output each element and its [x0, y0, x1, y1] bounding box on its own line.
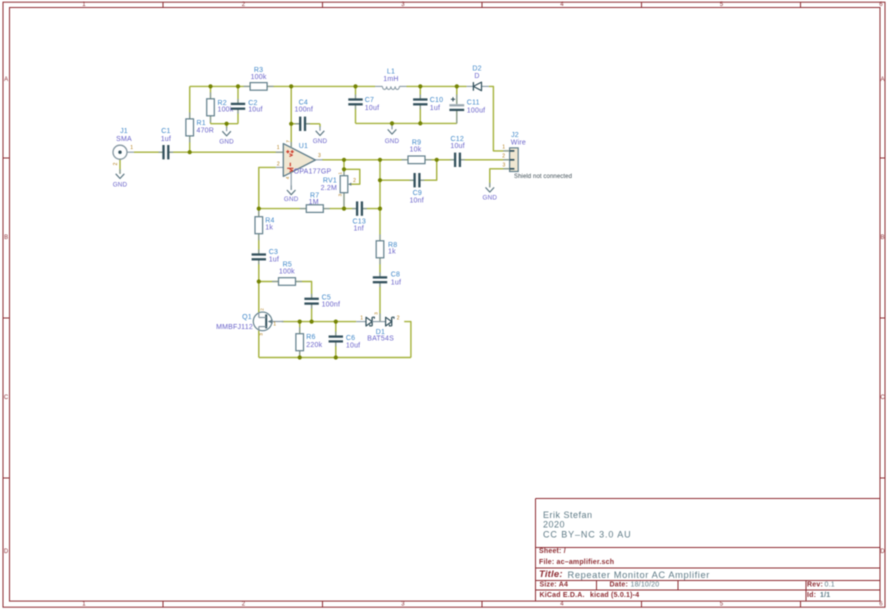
svg-text:A: A [880, 77, 884, 83]
svg-text:18/10/20: 18/10/20 [631, 581, 660, 588]
svg-text:Sheet: /: Sheet: / [539, 548, 566, 555]
svg-text:100uf: 100uf [467, 107, 486, 114]
svg-text:Id:: Id: [807, 592, 816, 599]
wire C11 column [456, 86, 458, 123]
svg-text:MMBFJ112: MMBFJ112 [216, 324, 253, 331]
svg-text:GND: GND [284, 196, 299, 203]
svg-text:3: 3 [401, 601, 405, 607]
wire filter ground stub [391, 123, 393, 126]
ground at filter bus [391, 125, 393, 130]
svg-text:D: D [4, 549, 9, 555]
resistor R7 [300, 208, 307, 210]
svg-text:C9: C9 [413, 190, 422, 197]
wire RV1 wiper loop [344, 169, 360, 184]
wire Q1 source column [258, 331, 260, 358]
svg-text:J2: J2 [511, 132, 519, 139]
svg-text:C3: C3 [269, 249, 278, 256]
svg-text:J1: J1 [120, 128, 128, 135]
svg-text:1k: 1k [265, 225, 273, 232]
svg-text:Repeater Monitor AC Amplifier: Repeater Monitor AC Amplifier [568, 570, 710, 580]
wire R2C2 ground stub [226, 124, 228, 128]
junction dots [208, 84, 212, 88]
capacitor C13 [358, 201, 361, 216]
svg-text:R6: R6 [306, 334, 315, 341]
svg-text:2: 2 [353, 178, 356, 184]
svg-text:B: B [4, 235, 8, 241]
svg-text:C: C [880, 395, 885, 401]
wire D2 to J2 pin1 [489, 86, 510, 150]
svg-text:4: 4 [560, 601, 564, 607]
wire U1 supply column [290, 86, 292, 147]
svg-text:0.1: 0.1 [825, 581, 835, 588]
capacitor C8 [373, 278, 388, 281]
svg-text:10nf: 10nf [409, 197, 423, 204]
diode D1 BAT54S [356, 321, 366, 323]
svg-text:Q1: Q1 [242, 314, 252, 321]
svg-text:5: 5 [720, 601, 724, 607]
capacitor C12 [456, 152, 459, 167]
capacitor C4 [301, 116, 304, 131]
svg-text:BAT54S: BAT54S [367, 336, 394, 343]
svg-text:5: 5 [720, 2, 724, 8]
svg-text:A: A [4, 77, 8, 83]
svg-text:10k: 10k [410, 146, 422, 153]
wire C2 column [237, 86, 239, 123]
capacitor C3 [251, 255, 266, 258]
svg-text:SMA: SMA [116, 136, 132, 143]
svg-text:C6: C6 [346, 335, 355, 342]
svg-text:1: 1 [82, 2, 86, 8]
ground at R2 C2 [226, 127, 228, 132]
svg-text:R3: R3 [254, 67, 263, 74]
svg-text:6: 6 [879, 2, 883, 8]
svg-text:1k: 1k [388, 248, 396, 255]
op-amp U1 [276, 151, 284, 153]
wire input net J1-C1-U1 [134, 151, 283, 153]
wire J1 ground stub [119, 159, 121, 173]
svg-text:1: 1 [360, 316, 363, 322]
ground at J1 [119, 169, 121, 174]
resistor R6 [299, 327, 301, 334]
wire C4 row [291, 123, 320, 125]
svg-text:D: D [880, 549, 885, 555]
svg-text:GND: GND [113, 182, 128, 189]
svg-text:100nf: 100nf [322, 302, 341, 309]
wire output row [322, 159, 510, 161]
wire R2 column [210, 86, 212, 123]
svg-text:R4: R4 [265, 218, 274, 225]
svg-text:470R: 470R [197, 127, 215, 134]
wire top bus right of L1 [407, 85, 467, 87]
wire D1 to bottom rail [404, 322, 411, 358]
wire R4 C3 column [258, 209, 260, 255]
wire gate row [282, 321, 357, 323]
wire R2-C2 ground row [211, 123, 239, 125]
svg-text:GND: GND [219, 138, 234, 145]
wire feedback row [259, 208, 380, 210]
wire C9 row [380, 160, 437, 180]
wire R6 column [299, 322, 301, 358]
resistor R8 [379, 234, 381, 241]
wire C6 column [335, 322, 337, 358]
svg-text:3: 3 [259, 333, 264, 336]
svg-text:D: D [474, 73, 479, 80]
svg-text:R5: R5 [283, 261, 292, 268]
svg-text:1: 1 [130, 145, 133, 151]
svg-text:2.2M: 2.2M [321, 185, 337, 192]
svg-text:1uf: 1uf [161, 136, 171, 143]
svg-text:2: 2 [113, 162, 119, 165]
svg-text:3: 3 [374, 312, 379, 315]
svg-text:C7: C7 [365, 97, 374, 104]
svg-text:3: 3 [401, 2, 405, 8]
svg-text:10uf: 10uf [346, 343, 360, 350]
svg-text:GND: GND [385, 138, 400, 145]
svg-text:4: 4 [285, 176, 290, 179]
wire R8 C8 column [379, 160, 381, 277]
svg-text:1mH: 1mH [383, 76, 398, 83]
svg-text:L1: L1 [387, 68, 395, 75]
wire R5 row [259, 282, 312, 299]
svg-text:100k: 100k [279, 268, 295, 275]
capacitor C1 [164, 145, 167, 160]
wire C10 column [419, 86, 421, 123]
connector J2 [510, 148, 519, 172]
frame column ticks [162, 2, 164, 7]
resistor R5 [272, 281, 279, 283]
wire C4 ground stub [319, 124, 321, 127]
diode D2 [467, 85, 474, 87]
svg-text:C12: C12 [450, 136, 463, 143]
svg-text:2: 2 [397, 316, 400, 322]
svg-text:1: 1 [82, 601, 86, 607]
svg-text:2020: 2020 [543, 520, 565, 530]
svg-text:U1: U1 [299, 143, 308, 150]
capacitor C2 [231, 105, 246, 108]
resistor R2 [210, 92, 212, 99]
svg-text:2: 2 [502, 154, 505, 160]
svg-text:2: 2 [242, 601, 246, 607]
svg-text:1uf: 1uf [269, 256, 279, 263]
wire R1 column [189, 86, 191, 152]
ground at U1 [290, 185, 292, 190]
svg-text:C: C [4, 395, 9, 401]
svg-text:1/1: 1/1 [820, 592, 830, 599]
svg-text:Wire: Wire [511, 140, 526, 147]
capacitor C7 [348, 100, 363, 103]
svg-text:2: 2 [242, 2, 246, 8]
wire inverting input [259, 167, 276, 208]
wire C5 column [311, 304, 313, 321]
resistor R4 [258, 210, 260, 217]
wire C7 column [355, 86, 357, 123]
svg-text:7: 7 [286, 140, 291, 143]
svg-text:C10: C10 [430, 97, 443, 104]
svg-text:GND: GND [483, 195, 498, 202]
svg-text:R1: R1 [197, 120, 206, 127]
svg-text:220k: 220k [306, 342, 322, 349]
svg-text:File: ac–amplifier.sch: File: ac–amplifier.sch [539, 559, 614, 566]
capacitor C11 polarized [453, 104, 461, 111]
svg-text:C8: C8 [391, 272, 400, 279]
svg-text:B: B [880, 235, 884, 241]
svg-text:2: 2 [277, 161, 280, 167]
svg-text:Title:: Title: [539, 569, 563, 580]
wire filter ground bus [356, 122, 457, 124]
svg-text:10uf: 10uf [450, 143, 464, 150]
svg-text:KiCad E.D.A.: KiCad E.D.A. [540, 592, 585, 599]
connector J1 [113, 145, 127, 159]
transistor Q1 [253, 312, 272, 331]
svg-text:Shield not connected: Shield not connected [514, 174, 572, 180]
svg-text:Size: A4: Size: A4 [540, 581, 569, 588]
svg-text:3: 3 [338, 193, 343, 196]
U1 plus minus marks [286, 151, 289, 153]
svg-text:C11: C11 [467, 100, 480, 107]
svg-text:Date:: Date: [610, 581, 629, 588]
svg-text:6: 6 [879, 601, 883, 607]
resistor R3 [244, 85, 251, 87]
svg-text:1uf: 1uf [430, 105, 440, 112]
svg-text:3: 3 [503, 163, 506, 169]
wire J2 pin3 to ground [490, 169, 510, 188]
ground at C4 [319, 126, 321, 131]
svg-text:C1: C1 [161, 128, 170, 135]
svg-text:100nf: 100nf [295, 106, 314, 113]
wire top bus left [190, 85, 375, 87]
svg-text:1: 1 [277, 145, 280, 151]
ground at J2 [489, 183, 491, 188]
svg-text:10uf: 10uf [248, 107, 262, 114]
svg-text:10uf: 10uf [365, 105, 379, 112]
svg-text:RV1: RV1 [323, 178, 337, 185]
wire bottom rail [259, 357, 411, 359]
svg-text:kicad (5.0.1)-4: kicad (5.0.1)-4 [590, 592, 639, 599]
frame row ticks [3, 157, 10, 159]
svg-text:1uf: 1uf [391, 280, 401, 287]
inductor L1 [375, 85, 382, 87]
capacitor C10 [413, 100, 428, 103]
svg-text:CC BY–NC 3.0 AU: CC BY–NC 3.0 AU [543, 529, 632, 539]
resistor R1 [189, 112, 191, 119]
svg-text:Rev:: Rev: [807, 581, 823, 588]
svg-text:2: 2 [259, 308, 264, 311]
svg-text:GND: GND [313, 138, 328, 145]
svg-text:100k: 100k [251, 74, 267, 81]
svg-text:3: 3 [318, 153, 321, 159]
svg-text:4: 4 [560, 2, 564, 8]
svg-text:C13: C13 [352, 218, 365, 225]
svg-text:OPA177GP: OPA177GP [294, 168, 332, 175]
svg-text:1nf: 1nf [354, 225, 364, 232]
svg-text:1: 1 [337, 172, 342, 175]
svg-text:D2: D2 [472, 66, 481, 73]
capacitor C9 [416, 173, 419, 188]
wire RV1 column [343, 160, 345, 209]
capacitor C6 [328, 338, 343, 341]
svg-text:1: 1 [502, 145, 505, 151]
resistor R9 [402, 159, 409, 161]
svg-text:1M: 1M [309, 199, 319, 206]
svg-text:Erik Stefan: Erik Stefan [543, 510, 593, 520]
title block outline [536, 498, 881, 500]
svg-text:1: 1 [273, 322, 276, 328]
potentiometer RV1 [343, 169, 345, 175]
capacitor C5 [304, 300, 319, 303]
